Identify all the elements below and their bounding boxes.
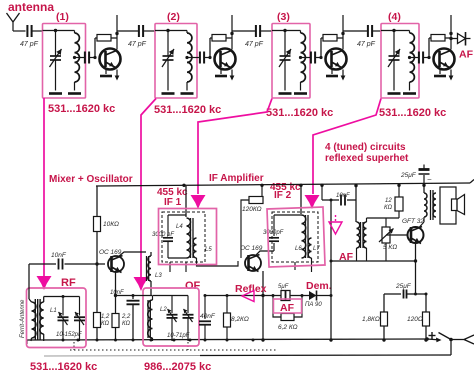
svg-text:L5: L5 <box>205 247 212 253</box>
svg-text:10-71pF: 10-71pF <box>167 333 190 339</box>
svg-text:2,2: 2,2 <box>121 314 131 320</box>
svg-text:47 pF: 47 pF <box>20 41 39 48</box>
svg-text:10nF: 10nF <box>336 193 350 199</box>
svg-text:47 pF: 47 pF <box>357 41 376 48</box>
svg-text:ПА 90: ПА 90 <box>305 302 322 308</box>
svg-text:1,8КΩ: 1,8КΩ <box>362 316 380 323</box>
svg-text:4 (tuned) circuits: 4 (tuned) circuits <box>325 142 406 153</box>
svg-text:L4: L4 <box>176 224 183 230</box>
svg-text:1,2: 1,2 <box>101 314 110 320</box>
svg-text:OC 169: OC 169 <box>99 249 122 256</box>
svg-text:(3): (3) <box>277 11 290 23</box>
svg-text:L6: L6 <box>295 246 302 252</box>
svg-text:531...1620 kc: 531...1620 kc <box>30 361 97 371</box>
svg-text:47 pF: 47 pF <box>128 41 147 48</box>
svg-text:Ferrit-Antenne: Ferrit-Antenne <box>20 299 26 338</box>
svg-text:–: – <box>428 176 432 183</box>
svg-text:3000pF: 3000pF <box>263 230 284 236</box>
svg-text:120Ω: 120Ω <box>407 316 423 323</box>
svg-text:antenna: antenna <box>8 0 54 14</box>
svg-text:10КΩ: 10КΩ <box>103 221 119 228</box>
svg-text:3000 pF: 3000 pF <box>152 232 174 238</box>
svg-text:531...1620 kc: 531...1620 kc <box>266 107 333 119</box>
svg-text:531...1620 kc: 531...1620 kc <box>154 104 221 116</box>
svg-text:Reflex: Reflex <box>235 283 267 295</box>
svg-text:10nF: 10nF <box>51 252 67 259</box>
svg-text:47 pF: 47 pF <box>245 41 264 48</box>
svg-text:10-152pF: 10-152pF <box>56 332 82 338</box>
svg-text:5 КΩ: 5 КΩ <box>383 244 397 251</box>
svg-text:reflexed superhet: reflexed superhet <box>325 153 409 164</box>
svg-text:IF 2: IF 2 <box>274 190 292 201</box>
svg-text:L2: L2 <box>160 307 167 313</box>
svg-text:(1): (1) <box>56 11 69 23</box>
svg-text:L1: L1 <box>50 308 57 314</box>
svg-text:25μF: 25μF <box>395 283 412 290</box>
svg-text:AF: AF <box>459 49 474 61</box>
svg-text:AF: AF <box>280 302 295 314</box>
svg-text:531...1620 kc: 531...1620 kc <box>379 107 446 119</box>
svg-text:120КΩ: 120КΩ <box>242 206 262 213</box>
svg-text:40nF: 40nF <box>200 313 216 320</box>
svg-text:6,2 КΩ: 6,2 КΩ <box>278 324 298 331</box>
svg-text:КΩ: КΩ <box>122 321 131 327</box>
svg-text:12: 12 <box>385 198 392 204</box>
svg-text:КΩ: КΩ <box>384 205 393 211</box>
svg-text:КΩ: КΩ <box>101 321 110 327</box>
svg-text:Dem.: Dem. <box>306 280 332 292</box>
svg-text:986...2075 kc: 986...2075 kc <box>144 361 211 371</box>
svg-text:25μF: 25μF <box>400 172 417 179</box>
svg-text:8,2КΩ: 8,2КΩ <box>231 316 249 323</box>
svg-text:531...1620 kc: 531...1620 kc <box>48 103 115 115</box>
svg-text:L7: L7 <box>313 246 320 252</box>
svg-text:Mixer + Oscillator: Mixer + Oscillator <box>49 174 133 185</box>
svg-text:GFT 32: GFT 32 <box>402 218 424 225</box>
svg-text:(4): (4) <box>388 11 401 23</box>
svg-text:IF Amplifier: IF Amplifier <box>209 173 264 184</box>
svg-text:L3: L3 <box>155 273 162 279</box>
svg-text:5μF: 5μF <box>278 284 289 290</box>
svg-text:(2): (2) <box>167 11 180 23</box>
svg-text:IF 1: IF 1 <box>164 197 182 208</box>
